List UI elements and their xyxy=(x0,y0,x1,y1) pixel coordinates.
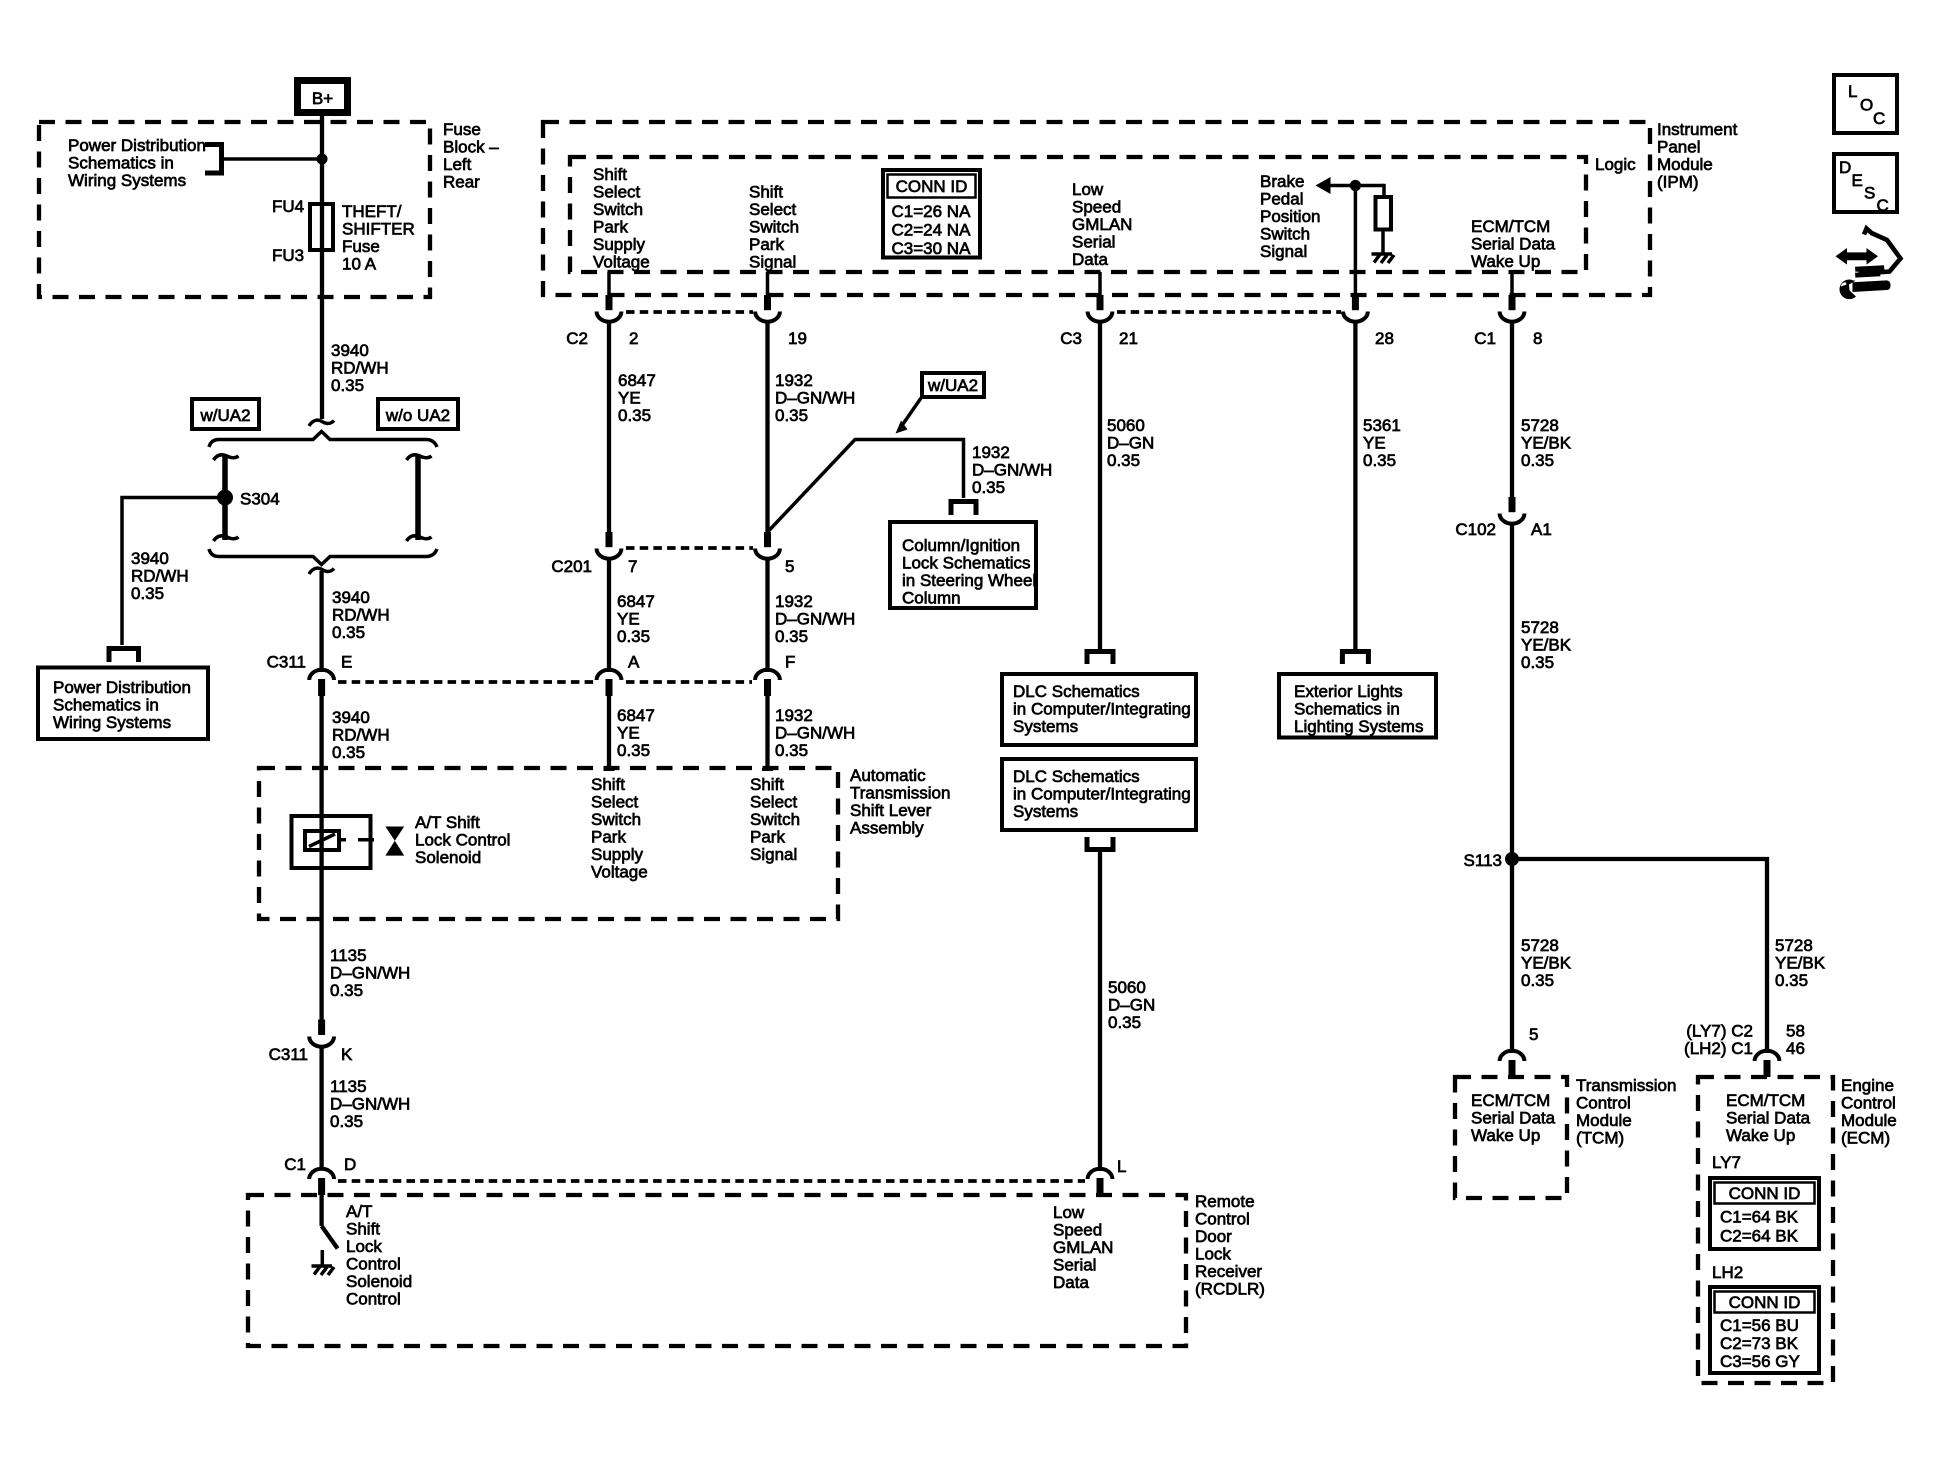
svg-text:Serial: Serial xyxy=(1072,233,1115,252)
wire 6847 YE C201 to pin A xyxy=(607,558,611,670)
svg-text:Wake Up: Wake Up xyxy=(1471,252,1540,271)
svg-text:w/o UA2: w/o UA2 xyxy=(385,406,450,425)
label 1932 D-GN/WH 0.35 (lower) xyxy=(775,706,855,760)
wire pin A into shift lever assembly xyxy=(607,696,611,769)
svg-text:0.35: 0.35 xyxy=(131,584,164,603)
label 3940 RD/WH 0.35 (S304 branch) xyxy=(131,549,189,603)
svg-text:Switch: Switch xyxy=(591,810,641,829)
valve symbol (solenoid actuator) xyxy=(385,827,404,856)
icon DESC xyxy=(1834,154,1897,215)
svg-text:RD/WH: RD/WH xyxy=(332,606,390,625)
svg-text:Data: Data xyxy=(1053,1273,1089,1292)
svg-text:Lock Schematics: Lock Schematics xyxy=(902,554,1031,573)
splice S304 xyxy=(217,490,233,506)
continuation bracket to DLC schematics xyxy=(1087,652,1113,665)
svg-text:FU3: FU3 xyxy=(272,246,304,265)
splice S113 xyxy=(1505,852,1519,866)
svg-text:YE/BK: YE/BK xyxy=(1521,636,1572,655)
brace lower option merge xyxy=(209,549,437,565)
label Power Distribution Schematics in Wiring Systems (top) xyxy=(68,136,206,190)
svg-text:5728: 5728 xyxy=(1521,618,1559,637)
node junction at B+ wire xyxy=(317,154,328,165)
svg-text:Logic: Logic xyxy=(1595,155,1636,174)
label 1932 D-GN/WH 0.35 (middle) xyxy=(775,592,855,646)
svg-text:Instrument: Instrument xyxy=(1657,120,1738,139)
option tag w/o UA2 xyxy=(378,399,458,429)
svg-text:Park: Park xyxy=(591,828,626,847)
svg-text:w/UA2: w/UA2 xyxy=(927,376,978,395)
wire 1932 D-GN/WH pin19 to C201 xyxy=(765,321,769,533)
label 1135 D-GN/WH 0.35 (above C311 K) xyxy=(330,946,410,1000)
svg-text:Left: Left xyxy=(443,155,472,174)
svg-text:Door: Door xyxy=(1195,1227,1232,1246)
wire right option branch xyxy=(407,455,432,541)
label Shift Select Switch Park Signal (assembly) xyxy=(750,775,800,864)
svg-text:5728: 5728 xyxy=(1775,936,1813,955)
box Power Distribution Schematics in Wiring Systems (bottom) xyxy=(38,668,208,740)
svg-text:SHIFTER: SHIFTER xyxy=(342,220,415,239)
svg-text:CONN ID: CONN ID xyxy=(1729,1184,1801,1203)
svg-text:(LY7) C2: (LY7) C2 xyxy=(1686,1022,1753,1041)
svg-text:Serial Data: Serial Data xyxy=(1471,1109,1556,1128)
connector C3 pin 21 xyxy=(1060,295,1138,348)
harness dotted link pins 2-19 xyxy=(626,310,753,314)
svg-text:D–GN/WH: D–GN/WH xyxy=(972,461,1052,480)
svg-text:6847: 6847 xyxy=(617,592,655,611)
svg-text:D: D xyxy=(1839,158,1851,177)
svg-text:0.35: 0.35 xyxy=(331,376,364,395)
svg-text:YE: YE xyxy=(617,610,640,629)
svg-text:Select: Select xyxy=(593,183,641,202)
label 5060 D-GN 0.35 (upper) xyxy=(1107,416,1154,470)
continuation bracket to exterior lights xyxy=(1342,652,1368,665)
svg-text:A/T: A/T xyxy=(346,1202,372,1221)
svg-text:Voltage: Voltage xyxy=(593,253,650,272)
svg-text:Data: Data xyxy=(1072,250,1108,269)
svg-text:1135: 1135 xyxy=(330,1077,367,1096)
svg-text:0.35: 0.35 xyxy=(1521,971,1554,990)
svg-text:D–GN: D–GN xyxy=(1108,996,1155,1015)
svg-text:3940: 3940 xyxy=(331,341,369,360)
svg-text:Fuse: Fuse xyxy=(443,120,481,139)
svg-text:(TCM): (TCM) xyxy=(1576,1129,1624,1148)
label 5728 YE/BK 0.35 (to TCM) xyxy=(1521,936,1572,990)
icon service arrows and wrench xyxy=(1836,229,1901,300)
connector TCM pin 5 xyxy=(1500,1025,1539,1077)
svg-text:5: 5 xyxy=(785,557,794,576)
svg-text:0.35: 0.35 xyxy=(775,406,808,425)
wire solenoid to C311 K xyxy=(319,868,323,1021)
svg-text:0.35: 0.35 xyxy=(1107,451,1140,470)
svg-text:Park: Park xyxy=(593,218,628,237)
svg-text:0.35: 0.35 xyxy=(332,623,365,642)
connector C201 pin 5 xyxy=(755,532,794,576)
svg-text:Wiring Systems: Wiring Systems xyxy=(68,171,186,190)
svg-text:in Computer/Integrating: in Computer/Integrating xyxy=(1013,700,1191,719)
svg-text:5060: 5060 xyxy=(1107,416,1145,435)
svg-text:0.35: 0.35 xyxy=(775,627,808,646)
wire break hook below merge xyxy=(309,568,334,574)
ground (solenoid control) xyxy=(312,1250,335,1275)
svg-text:Position: Position xyxy=(1260,207,1320,226)
option tag w/UA2 (steering column) xyxy=(922,373,984,397)
svg-text:Supply: Supply xyxy=(591,845,643,864)
connector pin L xyxy=(1088,1157,1127,1195)
svg-text:Power Distribution: Power Distribution xyxy=(53,678,191,697)
svg-text:0.35: 0.35 xyxy=(617,741,650,760)
svg-text:Shift: Shift xyxy=(346,1220,380,1239)
svg-text:Switch: Switch xyxy=(1260,225,1310,244)
wire 5728 YE/BK pin8 to C102 xyxy=(1510,321,1514,498)
svg-text:Voltage: Voltage xyxy=(591,863,648,882)
svg-text:0.35: 0.35 xyxy=(1363,451,1396,470)
label Shift Select Switch Park Signal (IPM) xyxy=(749,183,799,272)
harness dotted link D-L xyxy=(338,1179,1085,1183)
svg-text:Brake: Brake xyxy=(1260,172,1304,191)
box Column/Ignition Lock Schematics in Steering Wheel Column xyxy=(890,522,1036,608)
svg-text:Schematics in: Schematics in xyxy=(68,154,174,173)
svg-text:1932: 1932 xyxy=(775,706,813,725)
module Instrument Panel Module (IPM) dashed box xyxy=(543,122,1650,295)
svg-text:0.35: 0.35 xyxy=(972,478,1005,497)
svg-text:Low: Low xyxy=(1053,1203,1085,1222)
label 5728 YE/BK 0.35 (middle) xyxy=(1521,618,1572,672)
svg-text:Exterior Lights: Exterior Lights xyxy=(1294,682,1403,701)
svg-text:DLC Schematics: DLC Schematics xyxy=(1013,767,1140,786)
icon LOC xyxy=(1834,75,1897,133)
svg-text:A: A xyxy=(628,653,640,672)
label 1135 D-GN/WH 0.35 (below C311 K) xyxy=(330,1077,410,1131)
label 5728 YE/BK 0.35 (upper) xyxy=(1521,416,1572,470)
svg-text:Signal: Signal xyxy=(750,845,797,864)
svg-text:Shift: Shift xyxy=(749,183,783,202)
wire 5361 YE pin28 to exterior lights xyxy=(1353,321,1357,652)
svg-text:ECM/TCM: ECM/TCM xyxy=(1726,1091,1805,1110)
svg-text:D: D xyxy=(344,1155,356,1174)
svg-text:Shift: Shift xyxy=(593,165,627,184)
svg-text:5361: 5361 xyxy=(1363,416,1401,435)
svg-text:C3=30 NA: C3=30 NA xyxy=(892,239,972,258)
svg-text:Systems: Systems xyxy=(1013,717,1078,736)
box DLC Schematics in Computer/Integrating Systems (lower) xyxy=(1002,759,1196,830)
svg-text:(RCDLR): (RCDLR) xyxy=(1195,1280,1265,1299)
svg-text:C1=64 BK: C1=64 BK xyxy=(1720,1208,1799,1227)
svg-text:Control: Control xyxy=(1841,1094,1896,1113)
svg-text:YE/BK: YE/BK xyxy=(1521,954,1572,973)
svg-text:Block –: Block – xyxy=(443,138,499,157)
svg-text:THEFT/: THEFT/ xyxy=(342,202,402,221)
svg-text:Park: Park xyxy=(749,235,784,254)
wire stub IPM pin 19 xyxy=(766,272,770,296)
svg-text:YE/BK: YE/BK xyxy=(1775,954,1826,973)
continuation bracket to column/ignition lock xyxy=(951,502,976,516)
svg-text:C311: C311 xyxy=(269,1045,308,1064)
svg-text:C311: C311 xyxy=(267,653,306,672)
svg-text:Remote: Remote xyxy=(1195,1192,1255,1211)
svg-text:46: 46 xyxy=(1786,1039,1805,1058)
svg-text:K: K xyxy=(341,1045,353,1064)
module Engine Control Module (ECM) dashed box xyxy=(1698,1077,1833,1383)
svg-text:F: F xyxy=(785,653,795,672)
fuse THEFT/SHIFTER Fuse 10 A xyxy=(310,204,333,250)
label Low Speed GMLAN Serial Data (RCDLR) xyxy=(1053,1203,1113,1292)
svg-text:Solenoid: Solenoid xyxy=(346,1272,412,1291)
svg-text:7: 7 xyxy=(628,557,637,576)
svg-text:D–GN/WH: D–GN/WH xyxy=(775,389,855,408)
svg-text:0.35: 0.35 xyxy=(330,981,363,1000)
svg-text:19: 19 xyxy=(788,329,807,348)
svg-text:Signal: Signal xyxy=(749,253,796,272)
svg-text:Pedal: Pedal xyxy=(1260,190,1303,209)
svg-text:C3=56 GY: C3=56 GY xyxy=(1720,1352,1800,1371)
svg-text:Engine: Engine xyxy=(1841,1076,1894,1095)
svg-text:Speed: Speed xyxy=(1072,198,1121,217)
svg-text:C2=24 NA: C2=24 NA xyxy=(892,221,972,240)
svg-text:58: 58 xyxy=(1786,1022,1805,1041)
svg-text:Shift: Shift xyxy=(591,775,625,794)
wire S113 branch to ECM xyxy=(1512,859,1767,1050)
wire C311 K to C1 D xyxy=(319,1046,323,1168)
wire B+ to fuse xyxy=(320,116,324,204)
svg-text:1135: 1135 xyxy=(330,946,367,965)
svg-text:FU4: FU4 xyxy=(272,197,304,216)
svg-text:C: C xyxy=(1873,109,1885,128)
svg-text:5060: 5060 xyxy=(1108,978,1146,997)
label Engine Control Module (ECM) xyxy=(1841,1076,1897,1148)
svg-text:YE/BK: YE/BK xyxy=(1521,434,1572,453)
svg-text:D–GN/WH: D–GN/WH xyxy=(775,724,855,743)
connector ECM pins 58/46 xyxy=(1684,1022,1805,1078)
module Transmission Control Module (TCM) dashed box xyxy=(1455,1077,1567,1198)
label Remote Control Door Lock Receiver (RCDLR) xyxy=(1195,1192,1265,1299)
svg-text:Schematics in: Schematics in xyxy=(53,696,159,715)
connector C311 pin K xyxy=(269,1020,353,1065)
label 5728 YE/BK 0.35 (to ECM) xyxy=(1775,936,1826,990)
module Remote Control Door Lock Receiver (RCDLR) dashed box xyxy=(248,1195,1186,1346)
wire power distribution link xyxy=(222,157,323,161)
label ECM/TCM Serial Data Wake Up (TCM) xyxy=(1471,1091,1556,1145)
svg-text:LY7: LY7 xyxy=(1712,1153,1741,1172)
svg-text:Lock: Lock xyxy=(346,1237,382,1256)
logic block dashed box xyxy=(570,157,1586,272)
connector C2 pin 19 xyxy=(755,295,807,348)
label Shift Select Switch Park Supply Voltage (assembly) xyxy=(591,775,648,882)
svg-text:Shift: Shift xyxy=(750,775,784,794)
svg-text:Lighting Systems: Lighting Systems xyxy=(1294,717,1423,736)
connector C102 pin A1 xyxy=(1455,497,1551,539)
bracket to power distribution label xyxy=(205,145,222,174)
svg-text:Park: Park xyxy=(750,828,785,847)
svg-text:S: S xyxy=(1864,184,1875,203)
label THEFT/SHIFTER Fuse 10 A xyxy=(342,202,415,274)
svg-text:E: E xyxy=(1852,171,1863,190)
connector C1 pin 8 xyxy=(1474,295,1542,348)
conn id table LY7 xyxy=(1710,1178,1819,1249)
label ECM/TCM Serial Data Wake Up (IPM) xyxy=(1471,217,1556,271)
svg-text:Wake Up: Wake Up xyxy=(1471,1126,1540,1145)
label Transmission Control Module (TCM) xyxy=(1576,1076,1676,1148)
wire fuse down to option split xyxy=(320,250,324,419)
svg-text:Fuse: Fuse xyxy=(342,237,380,256)
wire brake signal horizontal xyxy=(1329,184,1384,188)
svg-text:Signal: Signal xyxy=(1260,242,1307,261)
wire branch to column/ignition lock xyxy=(769,440,964,532)
wire 1932 D-GN/WH C201 to pin F xyxy=(765,558,769,670)
harness dotted link pins 7-5 xyxy=(626,546,753,550)
ground (IPM internal) xyxy=(1372,254,1395,263)
label 1932 D-GN/WH 0.35 (upper) xyxy=(775,371,855,425)
svg-text:2: 2 xyxy=(629,329,638,348)
svg-text:6847: 6847 xyxy=(618,371,656,390)
svg-text:Receiver: Receiver xyxy=(1195,1262,1262,1281)
svg-text:0.35: 0.35 xyxy=(618,406,651,425)
svg-text:Automatic: Automatic xyxy=(850,766,926,785)
svg-text:Lock: Lock xyxy=(1195,1245,1231,1264)
svg-text:Switch: Switch xyxy=(593,200,643,219)
svg-text:5: 5 xyxy=(1529,1025,1538,1044)
svg-text:YE: YE xyxy=(617,724,640,743)
label Automatic Transmission Shift Lever Assembly xyxy=(850,766,950,838)
svg-text:C1: C1 xyxy=(284,1155,306,1174)
wire stub IPM pin 8 xyxy=(1510,272,1514,296)
connector C2 pin 2 xyxy=(566,295,638,348)
svg-text:D–GN/WH: D–GN/WH xyxy=(775,610,855,629)
solenoid A/T shift lock control xyxy=(292,816,375,868)
conn id table LH2 xyxy=(1710,1287,1819,1373)
svg-text:Wake Up: Wake Up xyxy=(1726,1126,1795,1145)
wire stub IPM pin 2 xyxy=(607,272,611,296)
svg-text:Speed: Speed xyxy=(1053,1221,1102,1240)
svg-text:E: E xyxy=(341,653,352,672)
svg-text:Serial: Serial xyxy=(1053,1256,1096,1275)
svg-text:Control: Control xyxy=(1576,1094,1631,1113)
svg-text:CONN ID: CONN ID xyxy=(896,177,968,196)
wire left option branch xyxy=(214,455,239,541)
wire to pull-up resistor xyxy=(1382,184,1386,197)
svg-text:RD/WH: RD/WH xyxy=(331,359,389,378)
connector C311 pin E xyxy=(267,653,353,697)
svg-text:(LH2) C1: (LH2) C1 xyxy=(1684,1039,1753,1058)
svg-text:Module: Module xyxy=(1576,1111,1632,1130)
brace upper option split xyxy=(209,432,437,448)
svg-text:w/UA2: w/UA2 xyxy=(199,406,250,425)
connector pin A xyxy=(597,653,640,697)
svg-text:Serial Data: Serial Data xyxy=(1471,235,1556,254)
svg-text:Column/Ignition: Column/Ignition xyxy=(902,536,1020,555)
svg-text:Transmission: Transmission xyxy=(850,784,950,803)
label 6847 YE 0.35 (lower) xyxy=(617,706,655,760)
svg-text:0.35: 0.35 xyxy=(332,743,365,762)
svg-text:D–GN/WH: D–GN/WH xyxy=(330,964,410,983)
svg-text:1932: 1932 xyxy=(972,443,1010,462)
svg-text:in Computer/Integrating: in Computer/Integrating xyxy=(1013,785,1191,804)
svg-text:C2=73 BK: C2=73 BK xyxy=(1720,1334,1799,1353)
svg-text:D–GN/WH: D–GN/WH xyxy=(330,1095,410,1114)
svg-text:0.35: 0.35 xyxy=(1521,653,1554,672)
svg-text:A1: A1 xyxy=(1531,520,1552,539)
svg-text:Column: Column xyxy=(902,589,961,608)
battery feed B+ xyxy=(298,81,348,113)
svg-text:GMLAN: GMLAN xyxy=(1072,215,1132,234)
svg-text:6847: 6847 xyxy=(617,706,655,725)
svg-text:Transmission: Transmission xyxy=(1576,1076,1676,1095)
svg-text:C1=26 NA: C1=26 NA xyxy=(892,202,972,221)
wire C102 to S113 xyxy=(1510,523,1514,1051)
svg-text:C3: C3 xyxy=(1060,329,1082,348)
node junction brake signal xyxy=(1350,180,1361,191)
label Instrument Panel Module (IPM) xyxy=(1657,120,1738,192)
label ECM/TCM Serial Data Wake Up (ECM) xyxy=(1726,1091,1811,1145)
svg-text:8: 8 xyxy=(1533,329,1542,348)
connector C201 pin 7 xyxy=(551,532,637,576)
svg-text:(ECM): (ECM) xyxy=(1841,1129,1890,1148)
connector pin 28 xyxy=(1343,295,1394,348)
label A/T Shift Lock Control Solenoid Control xyxy=(346,1202,412,1309)
wire 5060 D-GN DLC to pin L xyxy=(1098,850,1102,1169)
svg-text:C102: C102 xyxy=(1455,520,1496,539)
svg-text:Shift Lever: Shift Lever xyxy=(850,801,932,820)
option tag w/UA2 xyxy=(192,399,259,429)
label A/T Shift Lock Control Solenoid xyxy=(415,813,510,867)
module Automatic Transmission Shift Lever Assembly dashed box xyxy=(259,768,838,919)
svg-text:Supply: Supply xyxy=(593,235,645,254)
svg-text:Panel: Panel xyxy=(1657,138,1700,157)
svg-text:Module: Module xyxy=(1841,1111,1897,1130)
svg-text:C201: C201 xyxy=(551,557,592,576)
svg-text:Wiring Systems: Wiring Systems xyxy=(53,713,171,732)
svg-text:Control: Control xyxy=(346,1290,401,1309)
label 6847 YE 0.35 (middle) xyxy=(617,592,655,646)
svg-text:21: 21 xyxy=(1119,329,1138,348)
svg-text:L: L xyxy=(1848,82,1857,101)
fuse block dashed box (Fuse Block - Left Rear) xyxy=(39,122,430,297)
svg-text:Switch: Switch xyxy=(750,810,800,829)
label Fuse Block - Left Rear xyxy=(443,120,499,192)
svg-text:0.35: 0.35 xyxy=(330,1112,363,1131)
svg-text:YE: YE xyxy=(1363,434,1386,453)
svg-text:5728: 5728 xyxy=(1521,416,1559,435)
resistor (brake pull-up) xyxy=(1376,197,1392,230)
label Brake Pedal Position Switch Signal xyxy=(1260,172,1320,261)
svg-text:RD/WH: RD/WH xyxy=(332,726,390,745)
wire pin F into shift lever assembly xyxy=(765,696,769,769)
svg-text:0.35: 0.35 xyxy=(775,741,808,760)
svg-text:Select: Select xyxy=(750,793,798,812)
svg-text:Control: Control xyxy=(1195,1210,1250,1229)
wire stub IPM pin 21 xyxy=(1098,272,1102,296)
svg-text:1932: 1932 xyxy=(775,371,813,390)
wire C311 E to solenoid xyxy=(319,696,323,816)
svg-text:Lock Control: Lock Control xyxy=(415,831,510,850)
label 3940 RD/WH 0.35 (above C311 E) xyxy=(332,588,390,642)
svg-text:ECM/TCM: ECM/TCM xyxy=(1471,1091,1550,1110)
svg-text:DLC Schematics: DLC Schematics xyxy=(1013,682,1140,701)
svg-text:0.35: 0.35 xyxy=(1521,451,1554,470)
wire 6847 YE pin2 to C201 xyxy=(607,321,611,533)
label Shift Select Switch Park Supply Voltage (IPM) xyxy=(593,165,650,272)
harness dotted link E-A-F xyxy=(338,680,752,684)
label 6847 YE 0.35 (upper) xyxy=(618,371,656,425)
box DLC Schematics in Computer/Integrating Systems (upper) xyxy=(1002,674,1196,745)
svg-text:O: O xyxy=(1860,96,1873,115)
svg-text:GMLAN: GMLAN xyxy=(1053,1238,1113,1257)
wire S304 branch left xyxy=(122,498,225,646)
brake signal arrow xyxy=(1316,177,1331,194)
svg-text:L: L xyxy=(1117,1157,1126,1176)
wire brake node to pin 28 xyxy=(1354,186,1358,297)
wire 5060 D-GN pin21 to DLC xyxy=(1098,321,1102,652)
svg-text:A/T Shift: A/T Shift xyxy=(415,813,480,832)
